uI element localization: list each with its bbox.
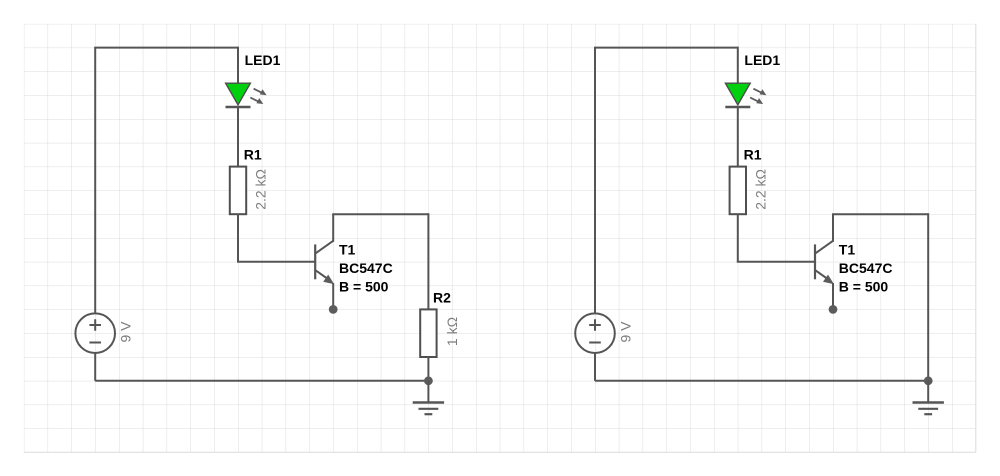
ground bar 1 (right) [913, 401, 944, 404]
svg-text:R1: R1 [744, 146, 762, 162]
svg-text:B = 500: B = 500 [839, 278, 889, 294]
wire LED1 anode (left) [237, 47, 239, 84]
wire LED1 anode (right) [737, 47, 739, 84]
voltage source circle (left) [75, 313, 115, 353]
transistor T1 emitter diagonal (left) [316, 270, 330, 280]
wire R1 down (right) [737, 214, 739, 262]
LED LED1 light arrow 2 (right) [750, 98, 763, 105]
svg-text:2.2 kΩ: 2.2 kΩ [752, 169, 768, 210]
svg-text:BC547C: BC547C [339, 260, 393, 276]
wire emitter down (right) [832, 283, 834, 309]
ground bar 3 (left) [425, 413, 433, 415]
LED LED1 triangle (right) [725, 83, 750, 105]
voltage source circle (right) [575, 313, 615, 353]
wire top horizontal (right) [594, 47, 738, 49]
svg-text:1 kΩ: 1 kΩ [444, 317, 460, 346]
wire collector to R2 top horizontal (left) [332, 213, 428, 215]
wire down to ground node (right) [927, 213, 929, 381]
svg-text:BC547C: BC547C [839, 260, 893, 276]
wire LED1 cathode to R1 (left) [237, 107, 239, 167]
voltage source minus sign (right) [589, 342, 601, 344]
node emitter dot (right) [829, 305, 838, 314]
svg-text:9 V: 9 V [118, 321, 134, 343]
transistor T1 emitter arrowhead (right) [823, 275, 834, 285]
wire bottom horizontal (right) [595, 380, 928, 382]
wire battery V- down (right) [594, 353, 596, 381]
svg-text:2.2 kΩ: 2.2 kΩ [253, 169, 269, 210]
voltage source plus sign (right) [589, 319, 601, 331]
wire collector up (right) [832, 214, 834, 242]
wire LED1 cathode to R1 (right) [737, 107, 739, 167]
resistor R1 body (left) [230, 167, 246, 215]
wire bottom horizontal (left) [95, 380, 428, 382]
transistor T1 collector diagonal (right) [816, 241, 833, 253]
resistor R2 body (left) [420, 309, 436, 357]
svg-text:T1: T1 [339, 242, 356, 258]
svg-text:R1: R1 [244, 146, 262, 162]
ground stem (left) [427, 381, 429, 403]
svg-text:LED1: LED1 [744, 52, 780, 68]
transistor T1 emitter diagonal (right) [816, 270, 830, 280]
wire collector to ground column horizontal (right) [832, 213, 928, 215]
voltage source plus sign (left) [89, 319, 101, 331]
wire battery V+ up (right) [594, 48, 596, 314]
node ground junction dot (left) [424, 376, 433, 385]
wire base horizontal (right) [737, 261, 815, 263]
wire R1 down (left) [237, 214, 239, 262]
svg-text:R2: R2 [433, 289, 451, 305]
wire base horizontal (left) [237, 261, 315, 263]
wire down to R2 (left) [427, 213, 429, 309]
voltage source minus sign (left) [89, 342, 101, 344]
ground bar 1 (left) [413, 401, 444, 404]
svg-text:B = 500: B = 500 [339, 278, 389, 294]
transistor T1 collector diagonal (left) [316, 241, 333, 253]
ground stem (right) [927, 381, 929, 403]
wire battery V- down (left) [94, 353, 96, 381]
ground bar 3 (right) [924, 413, 932, 415]
wire battery V+ up (left) [94, 48, 96, 314]
LED LED1 cathode bar (left) [226, 106, 251, 109]
svg-text:9 V: 9 V [617, 321, 633, 343]
wire R2 to ground node (left) [427, 357, 429, 381]
svg-text:T1: T1 [839, 242, 856, 258]
resistor R1 body (right) [730, 167, 746, 215]
LED LED1 cathode bar (right) [725, 106, 750, 109]
ground bar 2 (right) [918, 408, 938, 410]
transistor T1 emitter arrowhead (left) [323, 275, 334, 285]
wire collector up (left) [332, 214, 334, 242]
LED LED1 light arrow 2 (left) [250, 98, 263, 105]
node ground junction dot (right) [924, 376, 933, 385]
LED LED1 light arrow 1 (left) [254, 89, 267, 96]
LED LED1 triangle (left) [226, 83, 251, 105]
ground bar 2 (left) [419, 408, 439, 410]
LED LED1 light arrow 1 (right) [753, 89, 766, 96]
transistor T1 base bar (right) [814, 244, 816, 279]
svg-text:LED1: LED1 [245, 52, 281, 68]
wire top horizontal (left) [94, 47, 238, 49]
transistor T1 base bar (left) [314, 244, 316, 279]
wire emitter down (left) [332, 283, 334, 309]
node emitter dot (left) [329, 305, 338, 314]
